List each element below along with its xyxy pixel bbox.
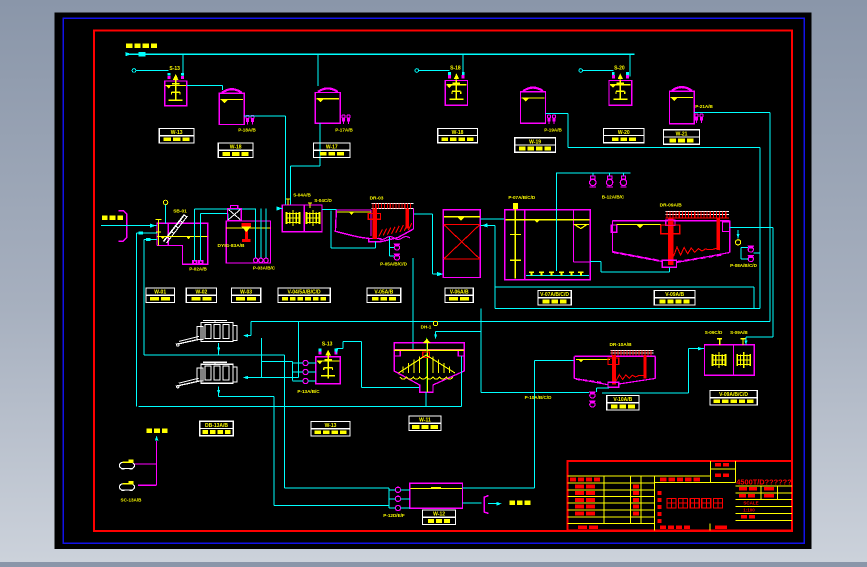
svg-text:S-18: S-18 [450,65,461,71]
svg-text:P-17A/B: P-17A/B [335,128,353,133]
svg-text:DR-09A/B: DR-09A/B [660,203,683,209]
svg-text:P-21A/B: P-21A/B [695,104,713,109]
svg-text:SC-13A/B: SC-13A/B [121,498,143,503]
svg-text:P-08A/B/C/D: P-08A/B/C/D [730,263,757,268]
svg-text:V-09A/B: V-09A/B [665,292,684,298]
svg-text:S-04A/B: S-04A/B [293,193,311,198]
svg-text:S-09A/B: S-09A/B [730,330,748,335]
svg-text:W-03: W-03 [240,290,252,296]
svg-text:P-12D/E/F: P-12D/E/F [383,513,405,518]
svg-text:V-06A/B: V-06A/B [450,290,469,296]
svg-text:W-18: W-18 [452,130,464,136]
svg-text:P-19A/B: P-19A/B [544,128,562,133]
svg-text:S-13: S-13 [169,66,180,72]
svg-text:S-09C/D: S-09C/D [705,330,723,335]
svg-text:V-09A/B/C/D: V-09A/B/C/D [719,392,748,398]
svg-text:V-04/5A/B/C/D: V-04/5A/B/C/D [288,290,321,296]
svg-text:DYIG-83A/B: DYIG-83A/B [218,243,245,249]
svg-text:P-18A/B: P-18A/B [238,128,256,133]
svg-text:DB-13A/B: DB-13A/B [205,423,228,429]
svg-text:W-21: W-21 [676,131,688,137]
svg-text:P-10A/B/C/D: P-10A/B/C/D [525,395,552,400]
svg-text:W-18: W-18 [230,145,242,151]
svg-text:SCALE: SCALE [743,501,758,506]
svg-text:SB-01: SB-01 [173,209,187,215]
svg-text:DR-10A/B: DR-10A/B [609,342,632,348]
svg-text:W-19: W-19 [529,139,541,145]
svg-text:V-10A/B: V-10A/B [613,397,632,403]
svg-text:P-05A/B/C/D: P-05A/B/C/D [380,261,407,266]
svg-text:DR-03: DR-03 [370,196,384,202]
svg-text:S-20: S-20 [614,65,625,71]
svg-text:V-05A/B: V-05A/B [374,290,393,296]
svg-text:B-12A/B/C: B-12A/B/C [602,194,625,199]
svg-text:W-11: W-11 [419,418,431,424]
svg-text:DH-1: DH-1 [421,324,432,329]
svg-text:W-20: W-20 [618,130,630,136]
svg-text:W-12: W-12 [433,512,445,518]
svg-text:W-13: W-13 [325,423,337,429]
svg-text:P-02A/B: P-02A/B [189,267,207,272]
svg-text:P-07A/B/C/D: P-07A/B/C/D [508,195,535,200]
svg-text:W-17: W-17 [326,145,338,151]
svg-text:P-13A/B/C: P-13A/B/C [297,389,320,394]
svg-text:P-03A/B/C: P-03A/B/C [253,266,276,271]
svg-text:W-13: W-13 [171,130,183,136]
svg-text:1:100: 1:100 [743,507,755,512]
svg-text:S-04C/D: S-04C/D [314,198,332,203]
svg-text:W-01: W-01 [154,290,166,296]
svg-text:S-13: S-13 [322,342,333,348]
svg-text:V-07A/B/C/D: V-07A/B/C/D [540,292,569,298]
svg-text:4500T/D??????: 4500T/D?????? [736,478,792,487]
svg-text:W-02: W-02 [195,290,207,296]
